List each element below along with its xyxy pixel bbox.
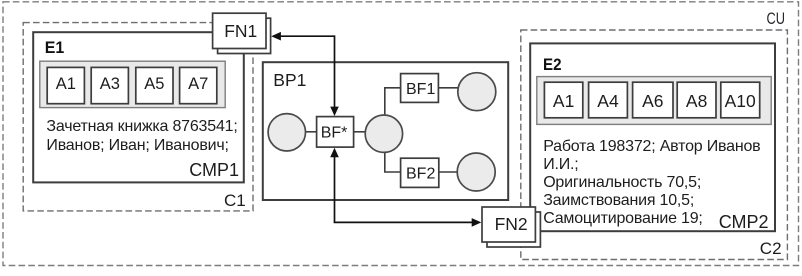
arrow from junction down into BF* top (head down) [334, 35, 336, 107]
svg-text:A1: A1 [553, 91, 574, 111]
function node FN2 main box [482, 207, 535, 242]
attribute A6 [633, 82, 673, 118]
svg-text:A8: A8 [686, 91, 707, 111]
attribute container of E2 (gray strip) [537, 77, 771, 125]
svg-text:FN2: FN2 [495, 214, 528, 234]
svg-text:Иванов; Иван; Иванович;: Иванов; Иван; Иванович; [46, 137, 228, 154]
state circle 2 [365, 115, 402, 152]
wire bottom horizontal to FN2, arrow head right [334, 221, 473, 223]
attribute A5 [136, 67, 173, 103]
wire circle1 to BF* [305, 131, 317, 133]
svg-text:Зачетная книжка 8763541;: Зачетная книжка 8763541; [46, 118, 237, 135]
function node FN1 shadow box [218, 18, 271, 53]
svg-text:СМР1: СМР1 [189, 160, 239, 180]
svg-text:СМР2: СМР2 [719, 212, 769, 232]
attribute A1 of E2 [544, 82, 582, 118]
entity box E2 [530, 43, 775, 231]
svg-text:BF*: BF* [321, 124, 348, 141]
svg-text:A5: A5 [144, 75, 164, 93]
attribute A4 [589, 82, 628, 118]
function box BF1 [401, 74, 439, 103]
container C1 (dashed) [23, 23, 253, 211]
attribute container of E1 (gray strip) [40, 61, 225, 107]
attribute A1 [47, 67, 84, 103]
arrow from junction to FN1 (horizontal, head left) [281, 35, 335, 37]
state circle 4 [457, 153, 495, 191]
svg-text:Заимствования 10,5;: Заимствования 10,5; [543, 192, 694, 209]
svg-text:BF1: BF1 [406, 81, 435, 98]
svg-text:C1: C1 [224, 191, 246, 210]
arrow from bottom wire up into BF* bottom (head up) [334, 157, 336, 223]
state circle 3 [458, 73, 496, 111]
svg-text:BF2: BF2 [406, 166, 435, 183]
svg-text:CU: CU [767, 9, 786, 28]
svg-text:Оригинальность 70,5;: Оригинальность 70,5; [543, 174, 701, 191]
svg-text:C2: C2 [760, 239, 782, 258]
attribute A10 [721, 82, 760, 118]
svg-text:A7: A7 [188, 75, 208, 93]
attribute A3 [91, 67, 128, 103]
container C2 (dashed) [521, 30, 788, 260]
wire BF1 to circle3 [438, 87, 458, 89]
state circle 1 [268, 114, 305, 151]
svg-text:Самоцитирование 19;: Самоцитирование 19; [543, 210, 702, 227]
function node FN1 main box [213, 13, 266, 48]
svg-text:A1: A1 [56, 75, 76, 93]
svg-text:И.И.;: И.И.; [543, 156, 578, 173]
attribute A7 [180, 67, 217, 103]
process box BP1 [263, 62, 508, 200]
svg-text:A3: A3 [100, 75, 120, 93]
attribute A8 [677, 82, 716, 118]
wire BF* to circle2 [354, 131, 367, 133]
svg-text:BP1: BP1 [273, 70, 306, 90]
svg-text:Работа 198372; Автор Иванов: Работа 198372; Автор Иванов [543, 138, 760, 155]
svg-text:FN1: FN1 [224, 21, 257, 41]
entity box E1 [33, 32, 244, 182]
svg-text:A6: A6 [642, 91, 663, 111]
svg-text:E1: E1 [45, 38, 65, 57]
svg-text:A4: A4 [597, 91, 619, 111]
wire BF2 to circle4 [439, 171, 458, 173]
function box BF* [317, 117, 354, 148]
svg-text:E2: E2 [543, 55, 562, 74]
function box BF2 [401, 158, 439, 187]
wire elbow circle2 to BF2 [385, 152, 401, 172]
wire elbow circle2 to BF1 [385, 88, 401, 116]
svg-text:A10: A10 [725, 91, 756, 111]
function node FN2 shadow box [487, 212, 540, 247]
